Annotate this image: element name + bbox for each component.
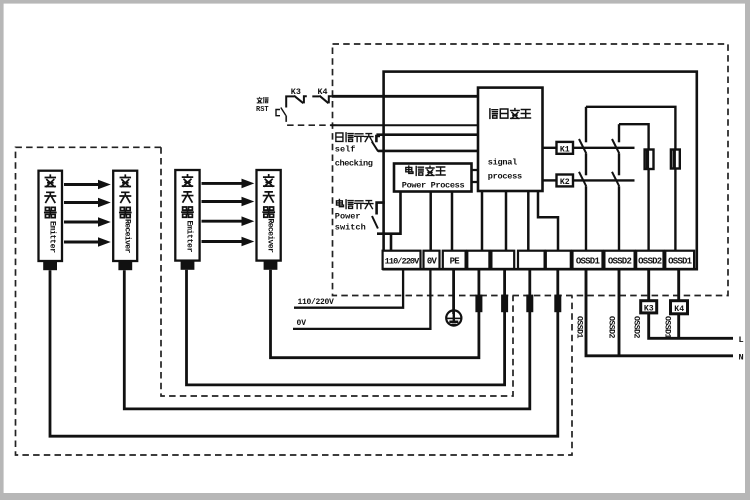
- label 自检开关 self checking: [335, 133, 373, 169]
- svg-text:OSSD2: OSSD2: [608, 257, 632, 267]
- svg-text:OSSD2: OSSD2: [607, 316, 616, 338]
- interior wire: power process to 0V terminal: [429, 192, 432, 251]
- wire E2 to terminal 5: [187, 269, 505, 385]
- relay coil K3: [641, 301, 657, 314]
- terminal row: [383, 251, 694, 269]
- svg-text:K3: K3: [644, 305, 654, 314]
- svg-text:OSSD2: OSSD2: [638, 257, 662, 267]
- wire R2 to terminal 4: [271, 269, 479, 358]
- controller main box U1: [384, 72, 697, 270]
- connector of R1: [118, 261, 132, 270]
- interior wire: power process to PE terminal: [451, 192, 454, 251]
- svg-text:Power: Power: [335, 212, 361, 222]
- OSSD1 output wire through K4 joining L line: [677, 269, 680, 338]
- fuse F2: [671, 150, 680, 251]
- OSSD2 output wire joining N line: [618, 269, 621, 356]
- svg-text:OSSD2: OSSD2: [632, 316, 641, 338]
- wire K4 to signal box (thick): [332, 95, 478, 98]
- light beam arrows pair 2: [202, 183, 243, 241]
- connector of E1: [43, 261, 57, 270]
- contact K4 fixed tick: [329, 96, 332, 103]
- svg-text:self: self: [335, 145, 356, 155]
- 110/220V supply line: [294, 269, 403, 308]
- PE wire to earth: [452, 269, 455, 314]
- contact K3 fixed tick: [304, 96, 307, 103]
- emitter block E2 (发光器 Emitter): [175, 170, 199, 261]
- svg-text:K3: K3: [291, 87, 301, 97]
- svg-text:L: L: [739, 335, 744, 345]
- connector of E2: [181, 261, 195, 270]
- cable gland on R1 wire: [526, 295, 533, 313]
- connector of R2: [264, 261, 278, 270]
- interior wire: signal box to terminal 6: [527, 191, 530, 251]
- svg-text:0V: 0V: [297, 319, 307, 328]
- svg-text:process: process: [488, 172, 522, 182]
- emitter block E1 (发光器 Emitter): [39, 171, 63, 261]
- second bus wire inside controller: [619, 124, 649, 149]
- wire R1 to terminal 6: [124, 269, 530, 409]
- wire self-check bottom to signal box: [378, 150, 478, 153]
- power process box (电源处理 Power Process): [394, 164, 472, 192]
- top bus wire inside controller: [586, 107, 675, 150]
- svg-text:110/220V: 110/220V: [385, 257, 420, 267]
- svg-text:checking: checking: [335, 158, 373, 168]
- svg-text:PE: PE: [450, 257, 461, 267]
- svg-text:OSSD1: OSSD1: [668, 257, 693, 267]
- relay coil K2: [543, 175, 635, 188]
- contact K4 (blade): [319, 96, 328, 104]
- svg-text:switch: switch: [335, 223, 366, 233]
- cable gland on R2 wire: [475, 295, 482, 313]
- dashed enclosure: light curtain set 1 boundary: [16, 147, 573, 455]
- wire E1 to terminal 7 (L-shaped cable): [50, 269, 558, 436]
- terminal labels: [385, 257, 693, 267]
- svg-text:N: N: [739, 353, 744, 363]
- wire self-check top to signal box: [376, 133, 478, 136]
- 0V supply line: [293, 269, 430, 329]
- svg-text:K4: K4: [674, 305, 684, 314]
- interior wire: signal box to terminal 4: [481, 191, 484, 251]
- svg-text:Receiver: Receiver: [266, 219, 276, 253]
- svg-text:K2: K2: [560, 178, 570, 187]
- dashed wire from reset button to controller: [286, 115, 338, 125]
- svg-text:Emitter: Emitter: [185, 221, 195, 253]
- reset wire into signal box: [331, 124, 479, 126]
- fuse F1: [645, 150, 654, 251]
- svg-text:Power Process: Power Process: [402, 181, 465, 191]
- contact chain A (OSSD1 output contacts): [579, 107, 586, 251]
- svg-text:OSSD1: OSSD1: [663, 316, 672, 338]
- svg-text:Receiver: Receiver: [122, 219, 132, 253]
- OSSD1 output wire to N line: [586, 269, 733, 356]
- OSSD2 output wire through K3 to L line: [649, 269, 733, 338]
- protective earth symbol (circle): [446, 310, 461, 325]
- svg-text:K4: K4: [318, 87, 328, 97]
- relay coil K4: [671, 301, 688, 314]
- signal process box (信号处理 signal process): [478, 88, 543, 191]
- receiver block R2 (受光器 Receiver): [257, 170, 281, 261]
- svg-text:110/220V: 110/220V: [298, 298, 335, 307]
- light beam arrows pair 1: [64, 185, 99, 243]
- wire branch down to 110/220V terminal: [390, 234, 393, 251]
- svg-text:OSSD1: OSSD1: [576, 257, 601, 267]
- wire between K3 and K4: [312, 95, 319, 97]
- svg-text:signal: signal: [488, 158, 517, 168]
- stub wires power process to signal box: [472, 170, 479, 182]
- cable gland on E1 wire: [554, 295, 561, 313]
- contact K3 (blade): [294, 96, 303, 104]
- wire power switch to power process and 110/220V terminal: [377, 192, 401, 234]
- interior stepped wire: signal box to terminal 7: [538, 191, 558, 251]
- svg-text:K1: K1: [560, 146, 570, 155]
- label 复位 RST: [256, 97, 269, 114]
- label 电源开关 Power switch: [335, 199, 373, 232]
- svg-text:0V: 0V: [427, 257, 438, 267]
- contact chain B (OSSD2 output contacts): [612, 124, 619, 251]
- interior wire: signal box to terminal 5: [505, 191, 508, 251]
- self checking switch (自检开关): [372, 136, 380, 152]
- reset button RST (复位): [276, 108, 286, 116]
- receiver block R1 (受光器 Receiver): [113, 171, 137, 261]
- cable gland on E2 wire: [501, 295, 508, 313]
- svg-text:Emitter: Emitter: [47, 221, 57, 253]
- wire from reset button up: [286, 96, 294, 107]
- dashed enclosure: controller boundary box: [333, 44, 729, 296]
- svg-text:OSSD1: OSSD1: [575, 316, 584, 338]
- svg-text:RST: RST: [256, 106, 269, 114]
- power switch (电源开关): [372, 203, 385, 229]
- relay coil K1: [543, 142, 635, 155]
